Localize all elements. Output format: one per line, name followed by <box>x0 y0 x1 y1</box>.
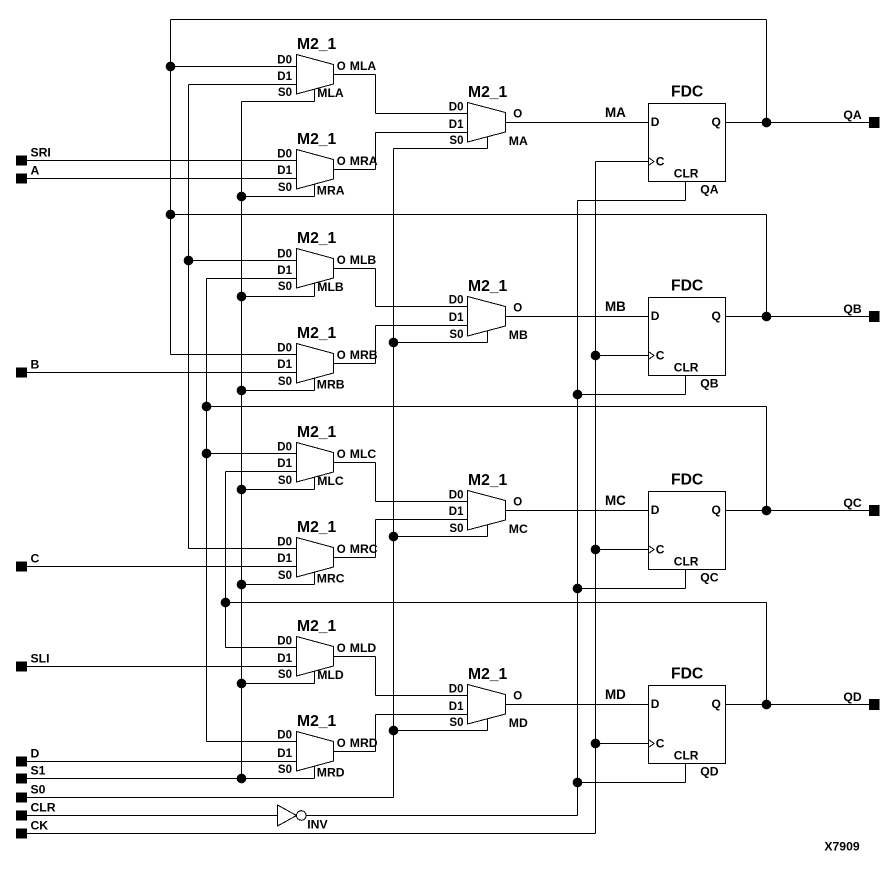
svg-text:QA: QA <box>700 182 718 196</box>
svg-text:D0: D0 <box>449 490 464 502</box>
svg-text:D0: D0 <box>277 636 292 648</box>
svg-text:MLB: MLB <box>350 253 377 267</box>
svg-text:D: D <box>651 115 660 129</box>
svg-text:Q: Q <box>712 503 721 517</box>
svg-text:D: D <box>31 747 40 761</box>
svg-text:A: A <box>31 164 40 178</box>
svg-text:M2_1: M2_1 <box>297 713 337 730</box>
svg-text:CLR: CLR <box>674 360 699 374</box>
svg-text:QB: QB <box>843 302 861 316</box>
svg-text:D0: D0 <box>277 730 292 742</box>
svg-text:S0: S0 <box>449 523 463 535</box>
svg-text:Q: Q <box>712 697 721 711</box>
svg-text:CLR: CLR <box>674 554 699 568</box>
svg-text:S0: S0 <box>31 783 46 797</box>
svg-text:D: D <box>651 697 660 711</box>
svg-text:Q: Q <box>712 309 721 323</box>
svg-text:D0: D0 <box>449 102 464 114</box>
svg-text:D1: D1 <box>277 748 292 760</box>
svg-text:M2_1: M2_1 <box>297 424 337 441</box>
svg-text:S1: S1 <box>31 764 46 778</box>
svg-text:D0: D0 <box>449 295 464 307</box>
svg-text:MLC: MLC <box>317 474 344 488</box>
svg-text:MB: MB <box>605 299 626 314</box>
svg-text:INV: INV <box>307 818 328 832</box>
svg-text:MD: MD <box>509 716 528 730</box>
svg-text:D0: D0 <box>277 249 292 261</box>
svg-text:O: O <box>513 109 522 121</box>
svg-text:FDC: FDC <box>671 472 703 489</box>
svg-text:D1: D1 <box>277 653 292 665</box>
svg-text:S0: S0 <box>278 764 292 776</box>
svg-text:MLB: MLB <box>317 280 344 294</box>
svg-text:D1: D1 <box>277 359 292 371</box>
svg-text:C: C <box>656 542 665 556</box>
svg-text:S0: S0 <box>278 281 292 293</box>
svg-text:D1: D1 <box>449 506 464 518</box>
svg-text:CLR: CLR <box>31 801 56 815</box>
svg-text:QC: QC <box>843 496 861 510</box>
svg-text:X7909: X7909 <box>824 840 859 854</box>
svg-text:M2_1: M2_1 <box>468 278 508 295</box>
svg-text:D0: D0 <box>277 55 292 67</box>
svg-text:O: O <box>337 449 346 461</box>
svg-text:QC: QC <box>700 570 718 584</box>
svg-text:Q: Q <box>712 115 721 129</box>
svg-text:FDC: FDC <box>671 666 703 683</box>
svg-text:C: C <box>656 348 665 362</box>
svg-text:MLA: MLA <box>317 86 344 100</box>
svg-text:S0: S0 <box>278 669 292 681</box>
svg-text:D1: D1 <box>449 312 464 324</box>
svg-text:M2_1: M2_1 <box>468 666 508 683</box>
svg-text:M2_1: M2_1 <box>297 519 337 536</box>
svg-text:D0: D0 <box>277 343 292 355</box>
svg-text:O: O <box>513 691 522 703</box>
svg-text:S0: S0 <box>449 135 463 147</box>
svg-text:MLA: MLA <box>350 59 377 73</box>
svg-text:QB: QB <box>700 376 718 390</box>
svg-text:O: O <box>337 643 346 655</box>
svg-text:SLI: SLI <box>31 652 50 666</box>
svg-text:C: C <box>31 552 40 566</box>
svg-text:MB: MB <box>509 328 528 342</box>
svg-text:CLR: CLR <box>674 748 699 762</box>
svg-text:O: O <box>337 544 346 556</box>
svg-text:D1: D1 <box>277 553 292 565</box>
svg-text:QA: QA <box>843 108 861 122</box>
svg-text:MRD: MRD <box>317 766 345 780</box>
svg-text:D0: D0 <box>277 537 292 549</box>
svg-text:O: O <box>513 497 522 509</box>
svg-text:D0: D0 <box>449 684 464 696</box>
svg-text:S0: S0 <box>278 87 292 99</box>
svg-text:M2_1: M2_1 <box>468 84 508 101</box>
svg-text:MA: MA <box>605 105 626 120</box>
svg-text:D1: D1 <box>449 701 464 713</box>
svg-text:SRI: SRI <box>31 146 51 160</box>
svg-text:MRA: MRA <box>317 184 345 198</box>
svg-text:C: C <box>656 154 665 168</box>
svg-text:B: B <box>31 358 40 372</box>
svg-text:S0: S0 <box>278 376 292 388</box>
svg-text:MRB: MRB <box>350 348 378 362</box>
svg-text:MRD: MRD <box>350 736 378 750</box>
svg-text:D: D <box>651 503 660 517</box>
svg-text:FDC: FDC <box>671 84 703 101</box>
svg-text:MC: MC <box>509 522 528 536</box>
svg-text:S0: S0 <box>278 570 292 582</box>
svg-text:M2_1: M2_1 <box>297 325 337 342</box>
svg-text:MA: MA <box>509 134 528 148</box>
svg-text:O: O <box>337 255 346 267</box>
svg-text:M2_1: M2_1 <box>297 131 337 148</box>
svg-text:D1: D1 <box>277 265 292 277</box>
svg-text:FDC: FDC <box>671 278 703 295</box>
svg-text:O: O <box>513 303 522 315</box>
svg-text:M2_1: M2_1 <box>468 472 508 489</box>
svg-text:MRA: MRA <box>350 154 378 168</box>
svg-text:MC: MC <box>605 493 626 508</box>
svg-text:O: O <box>337 738 346 750</box>
svg-text:S0: S0 <box>449 717 463 729</box>
svg-text:CLR: CLR <box>674 166 699 180</box>
svg-text:CK: CK <box>31 819 49 833</box>
svg-text:D: D <box>651 309 660 323</box>
svg-text:D1: D1 <box>277 71 292 83</box>
svg-text:D1: D1 <box>277 458 292 470</box>
svg-text:QD: QD <box>700 764 718 778</box>
svg-text:MD: MD <box>605 687 626 702</box>
svg-text:S0: S0 <box>278 475 292 487</box>
svg-text:MRC: MRC <box>350 542 378 556</box>
svg-text:MRC: MRC <box>317 572 345 586</box>
svg-text:C: C <box>656 736 665 750</box>
svg-text:D1: D1 <box>277 165 292 177</box>
svg-text:MRB: MRB <box>317 378 345 392</box>
svg-text:S0: S0 <box>449 329 463 341</box>
svg-text:D1: D1 <box>449 119 464 131</box>
svg-text:S0: S0 <box>278 182 292 194</box>
svg-text:O: O <box>337 350 346 362</box>
svg-text:O: O <box>337 61 346 73</box>
svg-text:M2_1: M2_1 <box>297 36 337 53</box>
svg-text:MLC: MLC <box>350 447 377 461</box>
svg-text:QD: QD <box>843 690 861 704</box>
svg-text:M2_1: M2_1 <box>297 230 337 247</box>
svg-text:D0: D0 <box>277 442 292 454</box>
svg-text:MLD: MLD <box>317 668 344 682</box>
svg-text:MLD: MLD <box>350 641 377 655</box>
svg-text:O: O <box>337 156 346 168</box>
svg-text:M2_1: M2_1 <box>297 618 337 635</box>
svg-text:D0: D0 <box>277 149 292 161</box>
